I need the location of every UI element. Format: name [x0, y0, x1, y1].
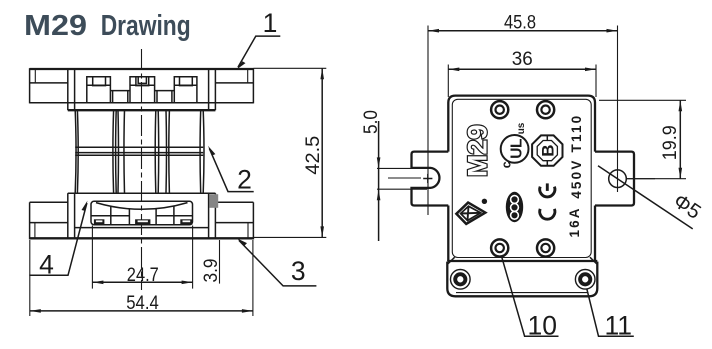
hole horizontal centerline — [627, 178, 655, 180]
svg-text:36: 36 — [512, 49, 533, 70]
right view: screw boss bottom-right — [537, 239, 554, 256]
left view: foot left — [94, 219, 105, 224]
callout 11 — [587, 289, 634, 341]
callout 4 — [29, 201, 87, 280]
svg-text:3: 3 — [291, 256, 306, 286]
svg-text:4: 4 — [39, 250, 54, 280]
left view: body mid horizontal lines — [75, 147, 203, 155]
right view: bottom plate — [447, 257, 597, 296]
svg-text:M29: M29 — [463, 124, 493, 177]
right view: corner screw bottom-left — [451, 270, 471, 290]
svg-text:10: 10 — [528, 311, 557, 341]
dimension 5.0 — [361, 110, 434, 241]
left view: foot right — [180, 219, 192, 224]
right view: screw boss top-left — [491, 101, 508, 118]
svg-text:B: B — [539, 144, 558, 156]
svg-text:1: 1 — [263, 8, 278, 38]
title M29 Drawing — [24, 10, 191, 42]
dimension 36 — [448, 49, 596, 97]
dimension phi5 leader — [598, 166, 705, 229]
right view: screw boss top-right — [537, 101, 554, 118]
right view: corner screw bottom-right — [575, 270, 595, 290]
marking CE: letter C — [540, 209, 555, 219]
right view: right mounting ear — [595, 152, 634, 206]
dimension 45.8 — [428, 13, 618, 34]
centerline left view — [141, 49, 143, 290]
extension line through hole center — [617, 26, 619, 193]
left view: foot center — [135, 219, 150, 224]
callout 2 — [208, 146, 254, 195]
svg-text:us: us — [516, 122, 527, 134]
left view: recessed panel — [91, 201, 193, 224]
dimension 42.5 — [253, 68, 326, 237]
marking diamond logo — [456, 203, 485, 224]
marking octagon logo — [532, 135, 562, 165]
left view: terminal 2 (center) — [130, 77, 155, 103]
svg-text:UL: UL — [509, 139, 526, 159]
svg-text:450V T110: 450V T110 — [569, 116, 584, 199]
callout 3 — [237, 238, 317, 286]
right view: screw boss bottom-left — [491, 239, 508, 256]
marking oval 3-dot badge — [506, 192, 523, 222]
svg-text:54.4: 54.4 — [126, 293, 159, 314]
right view: left mounting ear with slot — [412, 152, 449, 206]
svg-text:42.5: 42.5 — [303, 136, 324, 175]
dimension 24.7 — [92, 226, 192, 289]
svg-text:3.9: 3.9 — [201, 259, 222, 283]
left view: terminal 1 — [87, 77, 111, 103]
left view: step between terminals 2-3 — [155, 91, 175, 103]
left view: step between terminals 1-2 — [110, 91, 130, 103]
marking registered dot — [482, 199, 487, 204]
callout 10 — [502, 256, 559, 340]
svg-text:11: 11 — [605, 311, 633, 341]
left view: top flange outline — [30, 68, 254, 110]
svg-text:2: 2 — [237, 165, 252, 195]
dimension 54.4 — [30, 240, 253, 316]
extension line through slot center — [427, 26, 429, 216]
svg-text:45.8: 45.8 — [504, 13, 536, 34]
svg-text:M29: M29 — [24, 10, 87, 42]
svg-text:Drawing: Drawing — [101, 10, 191, 42]
svg-text:c: c — [500, 161, 514, 168]
svg-text:5.0: 5.0 — [361, 110, 382, 134]
svg-text:24.7: 24.7 — [127, 265, 159, 286]
svg-text:19.9: 19.9 — [660, 125, 681, 160]
slot horizontal centerline — [388, 177, 421, 179]
left view: bottom flange outline — [30, 193, 254, 239]
left view: terminal 3 — [174, 77, 197, 103]
marking CE: letter E — [540, 183, 555, 197]
dimension 19.9 — [599, 100, 686, 178]
right view: body outline — [448, 96, 595, 261]
left view: body middle section ribs — [75, 110, 204, 193]
callout 1 — [236, 8, 280, 69]
dimension 3.9 — [201, 240, 222, 284]
slot center cross — [423, 174, 432, 183]
marking cULus logo — [500, 122, 529, 168]
svg-text:16A: 16A — [567, 208, 582, 237]
right view: inner body line — [452, 99, 591, 257]
hole (phi 5) — [609, 170, 627, 188]
